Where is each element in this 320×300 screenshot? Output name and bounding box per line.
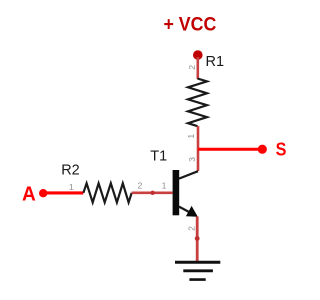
svg-text:3: 3: [187, 157, 197, 162]
resistor R1: [188, 79, 207, 127]
junction dot on emitter wire: [195, 236, 200, 241]
svg-text:1: 1: [186, 134, 196, 139]
svg-text:T1: T1: [150, 149, 167, 165]
svg-text:+ VCC: + VCC: [164, 13, 217, 35]
wire A to R2: [44, 191, 83, 194]
transistor T1 emitter line: [179, 207, 190, 213]
transistor T1 base bar: [173, 170, 180, 215]
transistor T1 collector line: [179, 171, 198, 178]
wire R2 to base: [132, 192, 173, 195]
node A dot: [39, 189, 47, 197]
wire to S: [198, 148, 262, 151]
svg-text:2: 2: [187, 226, 197, 231]
svg-text:1: 1: [162, 181, 167, 191]
svg-text:S: S: [276, 138, 287, 159]
node S dot: [258, 145, 267, 154]
wire emitter to ground: [196, 217, 199, 263]
ground: [175, 262, 220, 279]
wire VCC to R1: [197, 57, 200, 79]
svg-text:R1: R1: [206, 54, 225, 70]
svg-text:1: 1: [69, 182, 74, 192]
svg-text:A: A: [22, 184, 36, 206]
node VCC dot: [193, 50, 203, 60]
resistor R2: [83, 183, 131, 202]
wire R1 to collector: [197, 126, 200, 171]
transistor T1 emitter arrow: [186, 206, 198, 217]
svg-text:2: 2: [137, 181, 142, 191]
svg-text:2: 2: [187, 65, 197, 70]
junction dot on base wire: [150, 191, 154, 195]
svg-text:R2: R2: [61, 163, 80, 179]
